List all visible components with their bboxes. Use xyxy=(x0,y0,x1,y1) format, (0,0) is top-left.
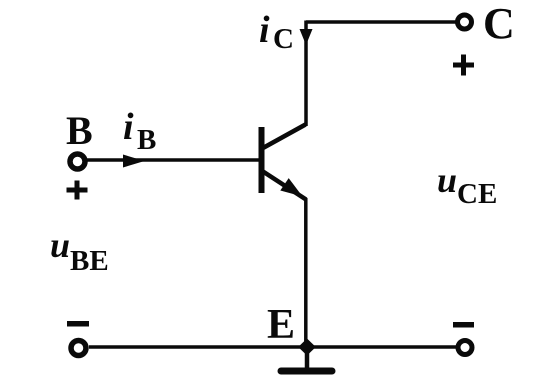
wire: base horizontal xyxy=(86,158,259,162)
svg-text:E: E xyxy=(267,302,295,348)
svg-text:C: C xyxy=(483,0,515,48)
svg-text:i: i xyxy=(123,106,134,148)
terminal C circle xyxy=(458,15,472,29)
wire: top collector horizontal xyxy=(306,20,456,24)
minus bottom-left xyxy=(67,321,89,327)
plus at C xyxy=(453,63,474,68)
svg-text:B: B xyxy=(137,124,156,156)
arrow i_B (right) on base wire xyxy=(123,155,145,168)
terminal bottom-right circle xyxy=(458,341,472,355)
ground stub xyxy=(305,347,310,368)
wire: collector vertical xyxy=(304,21,308,127)
wire: emitter vertical xyxy=(304,198,308,347)
minus bottom-right xyxy=(453,322,474,328)
svg-text:i: i xyxy=(259,9,270,51)
transistor Q1 base bar xyxy=(259,127,265,193)
terminal B circle xyxy=(70,154,85,169)
svg-text:BE: BE xyxy=(70,245,109,277)
svg-text:CE: CE xyxy=(457,178,497,210)
node E junction dot xyxy=(298,339,316,356)
svg-text:u: u xyxy=(437,160,457,200)
arrow emitter (down-right) xyxy=(280,178,302,196)
terminal bottom-left circle xyxy=(71,341,86,356)
wire: bottom horizontal xyxy=(89,345,456,349)
arrow i_C (down) on collector wire xyxy=(300,29,313,45)
svg-text:u: u xyxy=(50,225,70,265)
transistor Q1 collector diagonal xyxy=(263,125,306,149)
ground bar xyxy=(281,368,332,375)
svg-text:C: C xyxy=(273,23,294,55)
svg-text:B: B xyxy=(66,108,93,153)
transistor Q1 emitter diagonal xyxy=(263,172,306,200)
plus at B xyxy=(67,188,88,193)
